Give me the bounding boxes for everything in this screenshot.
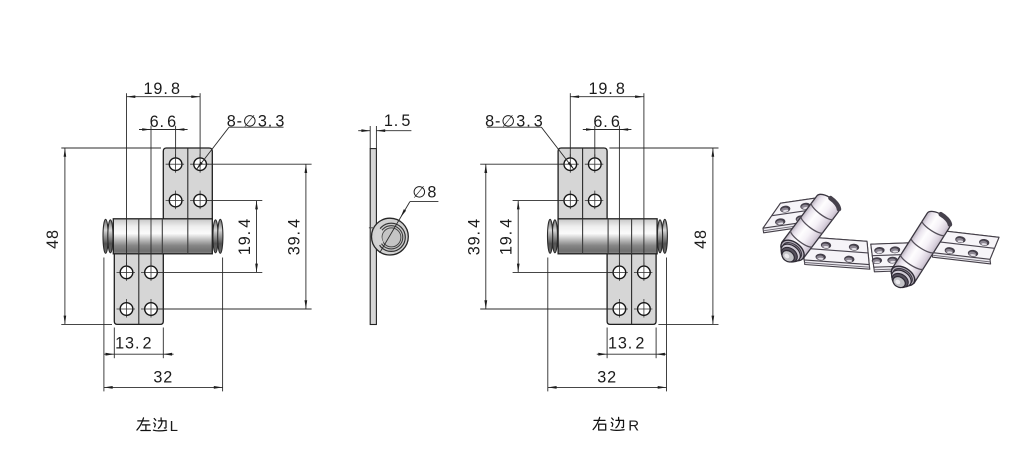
leader 8-&#216;3.3 (right view) xyxy=(485,112,574,169)
dimension 48 (right view) xyxy=(609,148,718,324)
left view lower leaf plate xyxy=(114,253,163,324)
coil gap notch on left of barrel end xyxy=(375,227,384,246)
svg-text:8-∅3.3: 8-∅3.3 xyxy=(485,112,544,130)
svg-text:32: 32 xyxy=(597,369,617,387)
hole upper leaf xyxy=(585,200,605,202)
right view barrel knuckle line xyxy=(631,219,633,254)
svg-text:1.5: 1.5 xyxy=(384,112,411,130)
left view hinge barrel xyxy=(113,219,212,254)
leader 8-&#216;3.3 (left view) xyxy=(196,112,285,169)
3D left hinge barrel xyxy=(774,191,842,269)
svg-text:8-∅3.3: 8-∅3.3 xyxy=(227,112,286,130)
svg-text:6.6: 6.6 xyxy=(150,113,177,131)
svg-text:39.4: 39.4 xyxy=(465,218,483,255)
svg-text:39.4: 39.4 xyxy=(285,218,303,255)
hole upper leaf xyxy=(560,200,580,202)
hole lower leaf xyxy=(117,308,137,310)
leader &#8709;8 (side view) xyxy=(380,184,439,253)
svg-text:32: 32 xyxy=(153,369,173,387)
left view barrel knuckle line xyxy=(138,219,140,254)
3D photo of the two hinges xyxy=(763,191,999,294)
svg-text:∅8: ∅8 xyxy=(412,184,437,202)
svg-text:19.4: 19.4 xyxy=(498,218,516,255)
dimension 32 (right view) xyxy=(548,258,667,392)
right view lower leaf fold line xyxy=(631,253,633,324)
dimension 48 (left view) xyxy=(44,148,161,324)
hole lower leaf xyxy=(609,271,629,273)
dimension 39.4 (left view) xyxy=(157,164,311,309)
hole lower leaf xyxy=(117,271,137,273)
left view upper leaf plate xyxy=(163,148,212,220)
svg-text:48: 48 xyxy=(692,229,710,249)
3D right hinge barrel xyxy=(885,208,953,294)
3D right hinge right leaf xyxy=(932,231,999,264)
dimension 39.4 (right view) xyxy=(465,164,613,309)
right hinge front view xyxy=(548,148,668,324)
hole upper leaf xyxy=(166,200,186,202)
left view barrel end cap ring xyxy=(103,219,108,253)
3D left hinge upper leaf (extends left) xyxy=(763,196,828,233)
svg-text:19.8: 19.8 xyxy=(588,80,625,98)
dimension 19.4 (right view) xyxy=(498,201,613,273)
small tick on side plate at barrel centre xyxy=(369,227,375,229)
left view barrel knuckle line xyxy=(161,219,163,254)
hole lower leaf xyxy=(609,308,629,310)
svg-text:48: 48 xyxy=(44,229,62,249)
svg-text:13.2: 13.2 xyxy=(115,335,152,353)
dimension 6.6 (left view) xyxy=(139,113,188,266)
svg-text:19.4: 19.4 xyxy=(236,218,254,255)
left view barrel end cap ring xyxy=(213,220,218,253)
label "zuo bian L" under left view xyxy=(137,418,167,431)
left view upper leaf fold line xyxy=(187,148,189,220)
hole lower leaf xyxy=(634,308,654,310)
left hinge front view xyxy=(103,148,223,324)
svg-text:L: L xyxy=(170,418,178,435)
hole upper leaf xyxy=(190,163,210,165)
right view barrel end cap ring xyxy=(657,220,662,253)
hole lower leaf xyxy=(141,308,161,310)
right view upper leaf plate xyxy=(558,148,607,220)
3D left hinge lower leaf (extends right) xyxy=(802,237,870,270)
svg-text:19.8: 19.8 xyxy=(144,80,181,98)
right view upper leaf fold line xyxy=(582,148,584,220)
dimension 19.8 (left view) xyxy=(127,80,201,266)
right view barrel knuckle line xyxy=(607,219,609,254)
right view barrel knuckle line xyxy=(582,219,584,254)
svg-text:R: R xyxy=(628,418,639,435)
right view barrel end cap ring xyxy=(548,219,553,253)
dimension 6.6 (right view) xyxy=(583,113,632,266)
left view barrel end cap ring xyxy=(218,219,223,253)
hole lower leaf xyxy=(141,271,161,273)
dimension 1.5 (side view) xyxy=(358,112,411,149)
right view lower leaf plate xyxy=(607,253,656,324)
right view barrel end cap ring xyxy=(662,219,667,253)
dimension 13.2 (left view) xyxy=(104,328,174,359)
dimension 13.2 (right view) xyxy=(597,328,667,359)
right view hinge barrel xyxy=(558,219,657,254)
side view thin plate xyxy=(370,149,376,325)
hole lower leaf xyxy=(634,271,654,273)
svg-text:13.2: 13.2 xyxy=(608,335,645,353)
left view barrel end cap ring xyxy=(108,220,113,253)
label "you bian R" under right view xyxy=(593,417,624,430)
hole upper leaf xyxy=(190,200,210,202)
left view barrel knuckle line xyxy=(187,219,189,254)
side view barrel end circles xyxy=(369,218,408,255)
right view barrel end cap ring xyxy=(552,220,557,253)
left view lower leaf fold line xyxy=(138,253,140,324)
hole upper leaf xyxy=(560,163,580,165)
svg-text:6.6: 6.6 xyxy=(593,113,620,131)
3D right hinge left leaf xyxy=(871,243,914,272)
dimension 32 (left view) xyxy=(104,258,223,392)
hole upper leaf xyxy=(585,163,605,165)
dimension 19.4 (left view) xyxy=(157,201,262,273)
hole upper leaf xyxy=(166,163,186,165)
dimension 19.8 (right view) xyxy=(570,80,644,266)
